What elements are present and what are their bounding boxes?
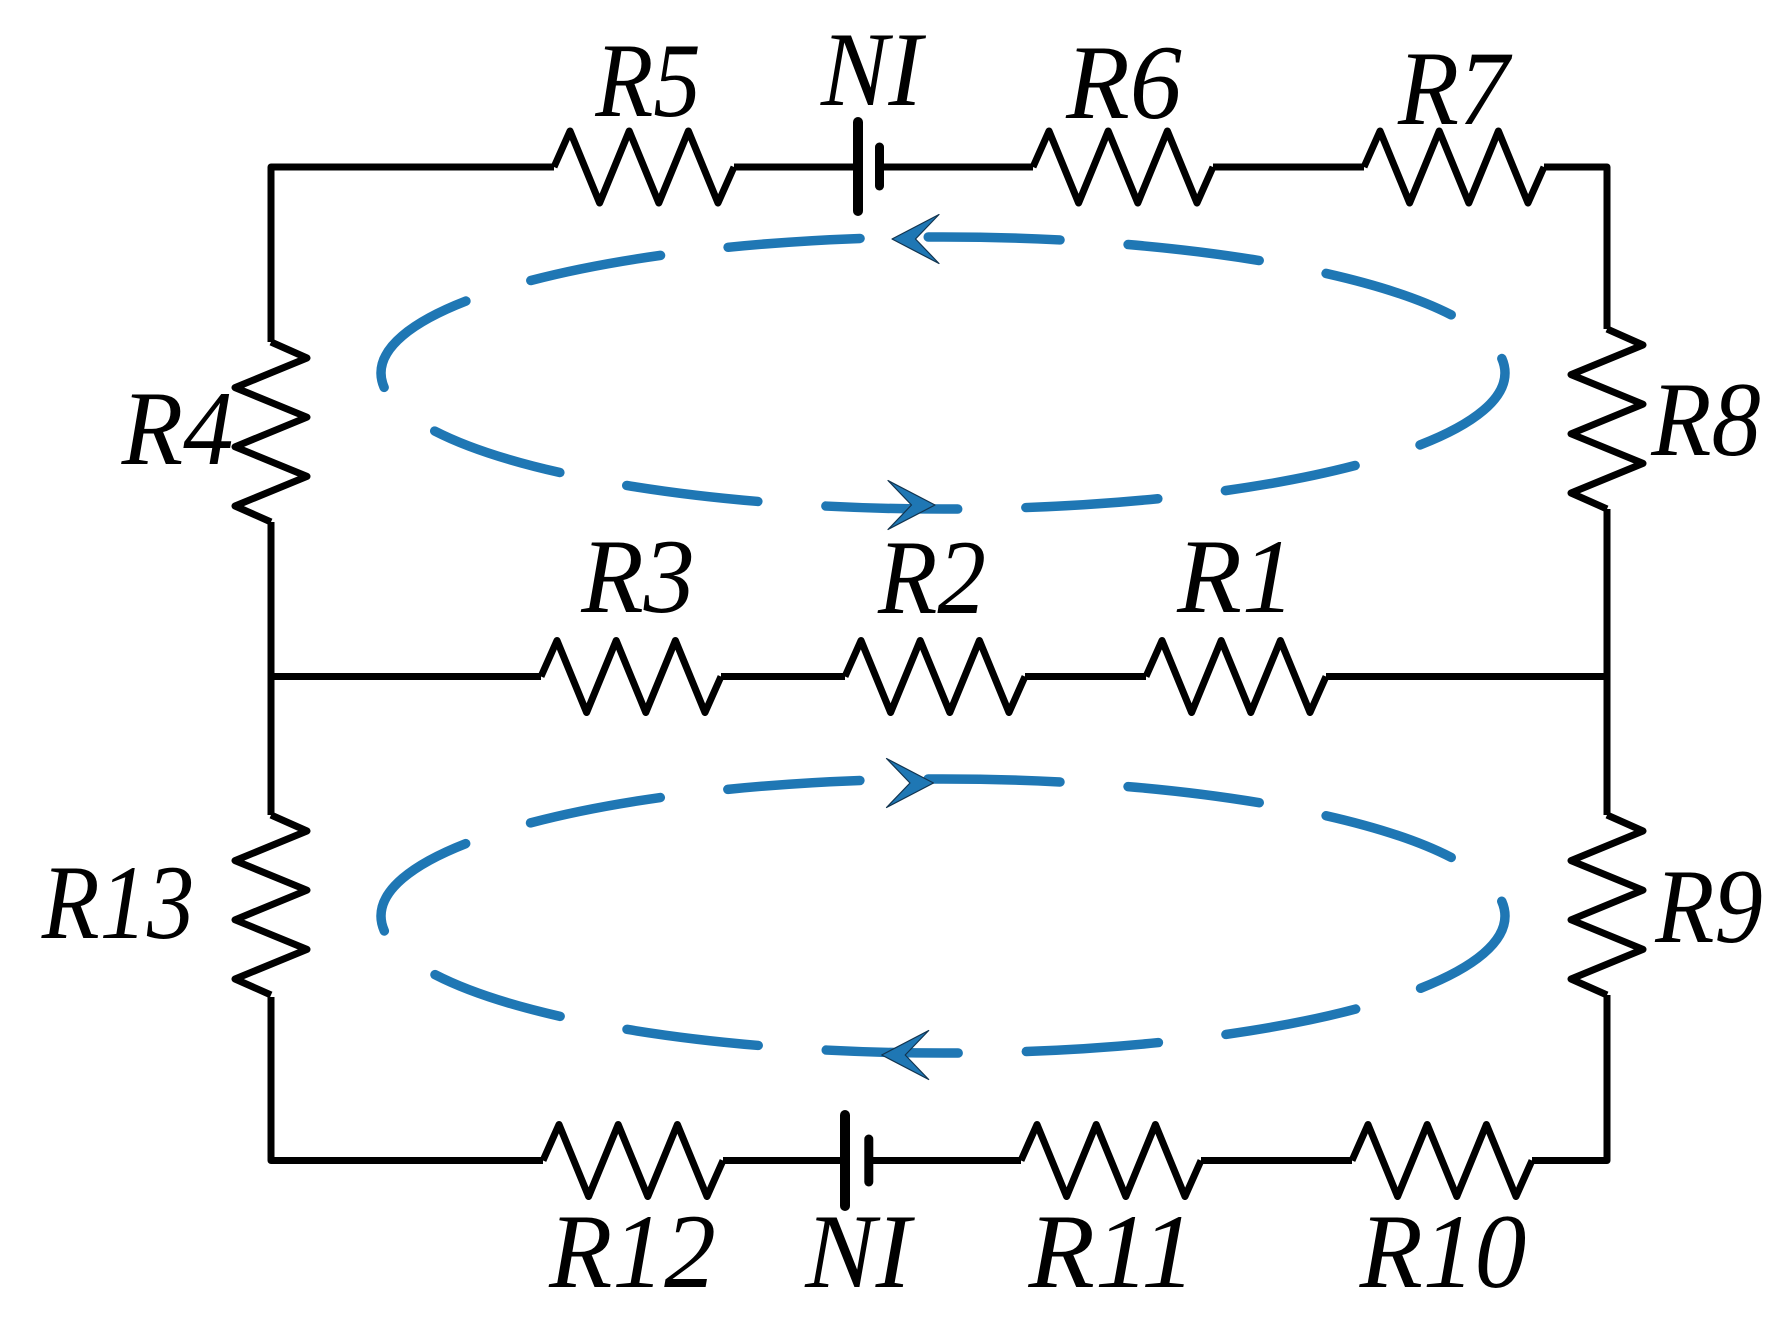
wire xyxy=(723,1157,845,1164)
wire xyxy=(1544,167,1607,329)
wire xyxy=(271,997,543,1161)
resistor R1 xyxy=(1146,518,1326,713)
resistor R3 xyxy=(541,517,721,712)
svg-text:R9: R9 xyxy=(1654,848,1763,965)
svg-text:R7: R7 xyxy=(1397,30,1512,147)
resistor R11 xyxy=(1021,1125,1201,1311)
wire xyxy=(1201,1157,1352,1164)
svg-text:R10: R10 xyxy=(1359,1193,1527,1310)
resistor R6 xyxy=(1033,23,1213,203)
mesh 1 arrowhead (bottom, pointing right) xyxy=(888,481,935,530)
wire xyxy=(1326,673,1607,680)
battery NI (bottom), short plate xyxy=(864,1139,873,1182)
mesh 1 arrowhead (top, pointing left) xyxy=(892,215,939,264)
wire xyxy=(271,673,541,680)
resistor R7 xyxy=(1364,30,1544,203)
resistor R8 xyxy=(1571,329,1761,509)
wire xyxy=(1025,673,1146,680)
resistor R4 xyxy=(121,342,307,522)
mesh current loop 2 (bottom, dashed ellipse) xyxy=(381,779,1505,1053)
svg-text:NI: NI xyxy=(804,1193,915,1310)
svg-text:R5: R5 xyxy=(594,21,700,139)
resistor R13 xyxy=(41,815,307,995)
svg-text:R3: R3 xyxy=(580,517,695,635)
resistor R12 xyxy=(543,1125,723,1311)
mesh current loop 1 (top, dashed ellipse) xyxy=(381,237,1505,509)
svg-text:R4: R4 xyxy=(121,371,234,488)
resistor R10 xyxy=(1352,1125,1532,1311)
wire xyxy=(879,164,1033,171)
svg-text:R11: R11 xyxy=(1027,1193,1195,1310)
svg-text:NI: NI xyxy=(820,12,927,129)
svg-text:R1: R1 xyxy=(1176,518,1295,635)
svg-text:R2: R2 xyxy=(877,518,986,636)
wire xyxy=(1532,995,1607,1161)
wire xyxy=(1604,509,1611,815)
wire xyxy=(1213,164,1364,171)
mesh 2 arrowhead (bottom, pointing left) xyxy=(882,1031,929,1080)
svg-text:R13: R13 xyxy=(41,843,195,961)
svg-text:R6: R6 xyxy=(1065,23,1182,141)
wire xyxy=(869,1157,1021,1164)
resistor R2 xyxy=(845,518,1025,712)
wire xyxy=(721,673,845,680)
wire xyxy=(734,164,858,171)
wire xyxy=(271,167,554,342)
svg-text:R12: R12 xyxy=(548,1193,716,1310)
resistor R5 xyxy=(554,21,734,203)
battery NI (top), short plate xyxy=(875,147,884,186)
battery NI (top), long plate xyxy=(853,122,863,211)
battery NI (bottom), long plate xyxy=(840,1115,850,1206)
resistor R9 xyxy=(1571,815,1763,995)
mesh 2 arrowhead (top, pointing right) xyxy=(887,759,934,808)
svg-text:R8: R8 xyxy=(1650,362,1760,479)
wire xyxy=(268,522,275,815)
